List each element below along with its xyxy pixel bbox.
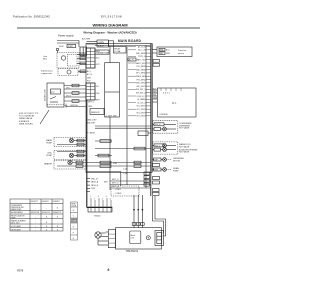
- svg-text:→ U BLU: → U BLU: [113, 189, 122, 191]
- svg-text:DUCT. NTC: DUCT. NTC: [11, 222, 21, 224]
- svg-text:DR_S: DR_S: [66, 95, 72, 97]
- svg-text:YEL: YEL: [153, 94, 156, 96]
- svg-text:PUMP: PUMP: [11, 217, 17, 219]
- svg-text:DET_L: DET_L: [88, 102, 95, 104]
- svg-text:TACH_A: TACH_A: [91, 181, 99, 184]
- internal vertical trace 3: [145, 46, 147, 189]
- motor circle: [146, 236, 150, 240]
- wire from board to stator: [153, 196, 164, 233]
- header rule: [17, 27, 200, 29]
- svg-text:Publication No. 5995512345: Publication No. 5995512345: [13, 15, 50, 19]
- circulation pump: [54, 151, 86, 160]
- svg-text:CODE: CODE: [71, 205, 77, 207]
- svg-text:SW_DET_1: SW_DET_1: [136, 89, 146, 91]
- svg-text:4: 4: [102, 199, 103, 201]
- pressure sensor: [157, 47, 192, 57]
- svg-text:AC_L_IN: AC_L_IN: [138, 49, 146, 52]
- internal vertical trace 1: [109, 117, 111, 190]
- svg-text:MOT_W: MOT_W: [112, 186, 119, 188]
- svg-text:6: 6: [108, 268, 110, 272]
- svg-text:COM_UI_1: COM_UI_1: [137, 96, 146, 98]
- harness code stack: [71, 202, 78, 240]
- svg-text:UI_DATA1: UI_DATA1: [137, 98, 145, 101]
- svg-text:→⎢ DET_SW: →⎢ DET_SW: [105, 115, 117, 118]
- svg-text:DRN: DRN: [154, 169, 159, 171]
- svg-text:WIRING DIAGRAM: WIRING DIAGRAM: [92, 22, 128, 27]
- terminal strip TB: [88, 207, 112, 212]
- relay box: [114, 47, 127, 54]
- svg-text:DRAIN PUMP: DRAIN PUMP: [11, 208, 22, 211]
- svg-text:VLV_DRV4: VLV_DRV4: [136, 116, 145, 118]
- svg-text:(SEAL MODEL): (SEAL MODEL): [19, 122, 33, 125]
- svg-text:filter: filter: [43, 58, 47, 61]
- motor connector block: [108, 230, 115, 248]
- svg-text:LED_DRV1: LED_DRV1: [136, 86, 145, 88]
- svg-text:PUMP: PUMP: [173, 170, 179, 172]
- svg-text:HOT VALVE: HOT VALVE: [179, 127, 190, 130]
- door ground wire: [66, 106, 86, 108]
- main board left connector strip A: [86, 48, 95, 68]
- svg-text:suppressor: suppressor: [41, 72, 52, 75]
- svg-text:240V: 240V: [59, 46, 64, 48]
- ground (line filter): [56, 48, 58, 50]
- svg-text:WASH: WASH: [46, 139, 52, 142]
- svg-text:TACH_B: TACH_B: [91, 184, 99, 187]
- svg-text:1: 1: [90, 196, 91, 198]
- UI board wires: [153, 90, 158, 102]
- svg-text:DR_L: DR_L: [66, 87, 71, 89]
- svg-text:DOOR LAMP: DOOR LAMP: [11, 225, 22, 228]
- aux boxes right of column: [153, 60, 160, 63]
- table: [10, 199, 63, 231]
- svg-text:EFLS617: EFLS617: [42, 201, 49, 203]
- svg-text:SENSOR: SENSOR: [91, 112, 100, 114]
- svg-text:EFLW417S: EFLW417S: [53, 212, 62, 214]
- svg-text:sensor: sensor: [178, 53, 184, 55]
- strip gap labels: [87, 70, 92, 83]
- svg-text:PRES_SEN: PRES_SEN: [136, 76, 146, 78]
- svg-text:MOT_U: MOT_U: [112, 179, 119, 181]
- main board right pin column: [150, 44, 152, 197]
- motor control box: [116, 228, 162, 249]
- svg-text:MOT_V: MOT_V: [112, 183, 119, 185]
- svg-text:AC_N_IN: AC_N_IN: [138, 45, 146, 48]
- main board top inner edge: [95, 45, 150, 47]
- svg-text:VLV_DRV3: VLV_DRV3: [136, 112, 145, 114]
- svg-text:VLV_DRV2: VLV_DRV2: [136, 109, 145, 111]
- stator block: [155, 231, 164, 246]
- svg-text:PUMP: PUMP: [46, 143, 52, 145]
- svg-text:MOTOR: MOTOR: [173, 160, 181, 162]
- heater element: [54, 161, 86, 170]
- plug connector: [80, 47, 87, 56]
- wire N: [57, 42, 79, 44]
- motor inner box: [130, 231, 141, 244]
- svg-text:P_TACH: P_TACH: [87, 132, 95, 135]
- svg-text:AC_N: AC_N: [87, 73, 92, 76]
- UI board: [158, 88, 197, 117]
- svg-text:Wiring Diagram - Washer (ADVAN: Wiring Diagram - Washer (ADVANCED): [83, 31, 136, 35]
- svg-text:P15V: P15V: [91, 188, 96, 190]
- svg-text:UART_RXD: UART_RXD: [136, 62, 146, 65]
- svg-text:UART_TXD: UART_TXD: [136, 59, 146, 62]
- svg-text:HEATER: HEATER: [44, 163, 53, 166]
- valve group 2: bleach/softener valves: [153, 142, 199, 154]
- heater wires across: [72, 162, 151, 164]
- svg-text:C_A1: C_A1: [123, 168, 128, 171]
- pressure sensor wires: [153, 49, 158, 51]
- svg-text:MAIN BOARD: MAIN BOARD: [118, 39, 142, 43]
- svg-text:3: 3: [98, 196, 99, 198]
- terminal block L/N: [97, 40, 109, 47]
- cord label box: [67, 44, 76, 47]
- svg-text:EFLS517: EFLS517: [31, 201, 38, 203]
- svg-text:H2O VALVE: H2O VALVE: [179, 151, 190, 154]
- door lock wires to board: [64, 86, 86, 102]
- lower wires board bottom: [110, 181, 151, 188]
- svg-text:P5V_SEN1: P5V_SEN1: [136, 79, 145, 81]
- svg-text:F: F: [73, 232, 74, 234]
- svg-text:AC_H: AC_H: [129, 58, 134, 61]
- bus tap labels: [87, 179, 90, 192]
- svg-text:H2O VALVE: H2O VALVE: [179, 146, 190, 149]
- svg-text:HTR: HTR: [113, 163, 118, 165]
- svg-text:TO LOCATED AT: TO LOCATED AT: [19, 115, 35, 118]
- svg-text:RELAY: RELAY: [114, 47, 121, 50]
- svg-text:SW_DET_2: SW_DET_2: [136, 93, 146, 95]
- main board left connector strip B: [86, 83, 95, 100]
- svg-text:Pressure: Pressure: [178, 50, 187, 52]
- svg-text:6: 6: [110, 199, 111, 201]
- svg-text:GRN: GRN: [153, 97, 158, 99]
- relay wire label: [128, 58, 136, 61]
- svg-text:SW_DET: SW_DET: [87, 123, 96, 125]
- right column lower boxes: [144, 164, 160, 196]
- svg-text:P5V_SEN2: P5V_SEN2: [136, 66, 145, 68]
- svg-text:VLV_DRV1: VLV_DRV1: [136, 106, 145, 108]
- right pin stubs & labels: [146, 47, 151, 116]
- svg-text:WIRES VALVE: WIRES VALVE: [19, 117, 33, 120]
- svg-text:TB200: TB200: [94, 216, 101, 218]
- svg-text:GND_SEN1: GND_SEN1: [136, 83, 146, 85]
- fuse box: [95, 50, 109, 54]
- valve row: drain pump: [153, 167, 180, 172]
- wire L: [57, 40, 79, 42]
- svg-text:K1 16A: K1 16A: [114, 50, 121, 53]
- svg-text:GND_SEN3: GND_SEN3: [136, 69, 146, 71]
- motor harness label box: [111, 186, 139, 196]
- motor wire tags: [132, 223, 136, 226]
- svg-text:4 3 2 1: 4 3 2 1: [163, 93, 170, 95]
- door lock assembly: [47, 83, 64, 107]
- svg-text:U.I.: U.I.: [172, 101, 177, 105]
- svg-text:5: 5: [106, 196, 107, 198]
- internal relay module box: [105, 63, 120, 117]
- svg-text:DOOR LOCK: DOOR LOCK: [45, 88, 47, 101]
- svg-text:CODE: CODE: [71, 220, 77, 222]
- svg-text:PUMP: PUMP: [46, 155, 52, 157]
- svg-text:PWR: PWR: [68, 46, 73, 48]
- svg-text:UI_CLK_1: UI_CLK_1: [137, 102, 145, 104]
- svg-text:P12V_UI: P12V_UI: [138, 56, 146, 58]
- svg-text:GND_DET: GND_DET: [87, 119, 97, 121]
- svg-text:2: 2: [94, 199, 95, 201]
- svg-text:AC_L: AC_L: [87, 70, 92, 73]
- bus corner to terminal strip: [87, 207, 112, 209]
- line filter: [57, 53, 79, 69]
- svg-text:GRN/YEL: GRN/YEL: [70, 105, 78, 107]
- motor wires down with arrows: [134, 195, 142, 228]
- wire label boxes (filter to board): [77, 53, 86, 55]
- ground (door lock): [65, 104, 68, 108]
- svg-text:W/DISPENSER: W/DISPENSER: [11, 212, 24, 214]
- svg-text:→ V RED: → V RED: [113, 193, 122, 195]
- aux wire to harness box: [87, 171, 121, 173]
- svg-text:Power supply: Power supply: [58, 34, 74, 38]
- svg-text:GND_M: GND_M: [91, 178, 98, 180]
- valve group 1: hot/condenser valves: [153, 121, 193, 134]
- internal relay/diode items: [87, 102, 151, 157]
- svg-text:C_B2: C_B2: [123, 173, 128, 175]
- svg-text:PTC: PTC: [51, 92, 56, 94]
- svg-text:EFLS517A: EFLS517A: [31, 211, 40, 214]
- pin wire stub labels: [128, 47, 136, 116]
- strip row labels: [96, 51, 101, 101]
- interference suppressor: [58, 69, 78, 76]
- svg-text:VLV_H: VLV_H: [155, 124, 161, 126]
- svg-text:R978: R978: [17, 269, 24, 273]
- svg-text:GND_SEN2: GND_SEN2: [136, 53, 146, 55]
- wash pump: [54, 138, 86, 147]
- svg-text:GND: GND: [87, 77, 92, 79]
- svg-text:GND: GND: [88, 106, 93, 108]
- svg-text:T3M/XM214: T3M/XM214: [126, 251, 139, 253]
- left bus wire: [86, 100, 88, 208]
- svg-text:NTC_SEN2: NTC_SEN2: [136, 73, 145, 75]
- svg-text:cntrl: cntrl: [131, 237, 135, 240]
- svg-text:EFLS617S: EFLS617S: [42, 212, 51, 214]
- svg-text:DRUM LAMP: DRUM LAMP: [11, 228, 22, 231]
- svg-text:BLK WHT: BLK WHT: [82, 39, 91, 41]
- main board outline: [86, 44, 152, 173]
- svg-text:Interference: Interference: [41, 70, 53, 73]
- internal vertical trace 2: [126, 46, 128, 186]
- wires to terminal: [87, 41, 98, 43]
- svg-text:CN2009: CN2009: [160, 114, 169, 116]
- note pointer line: [40, 110, 49, 124]
- junction drop: [78, 41, 80, 48]
- valve row: dispenser motor: [153, 158, 185, 163]
- svg-text:VLV_C: VLV_C: [155, 145, 161, 147]
- svg-text:EFLW417: EFLW417: [53, 201, 60, 203]
- tach wires: [98, 233, 106, 245]
- aux connector: [109, 41, 114, 47]
- svg-text:E-BRACKE: E-BRACKE: [19, 120, 30, 123]
- svg-text:EFLS617SIW: EFLS617SIW: [101, 15, 122, 19]
- tach sensor: [95, 232, 101, 238]
- note text block: [19, 113, 39, 125]
